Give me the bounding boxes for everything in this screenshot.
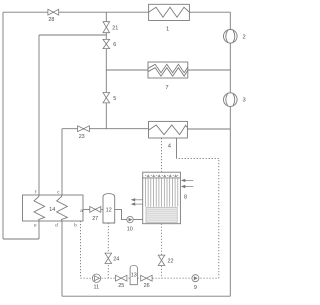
valve 21 [103,22,110,33]
compressor 3 [224,93,238,107]
wire dashed bottom header y=278.2 [81,277,219,279]
wire HX1 right to riser [189,11,230,13]
wire vessel12 right to pump10 to absorber8 [115,209,143,219]
wire valve column x=106.3 from top line to y=128.7 [105,12,107,129]
svg-text:9: 9 [194,285,197,291]
heat exchanger 4 [149,121,188,138]
svg-text:22: 22 [168,259,174,265]
wire dashed vessel12 bottom through valve24 to bottom header [107,223,109,278]
svg-text:25: 25 [118,283,124,289]
wire HX4 right to riser [187,128,230,130]
valve 6 [103,39,110,48]
wire top main line y=12 from left loop to HX1 [3,11,149,13]
svg-text:14: 14 [49,207,55,213]
valve 25 [116,275,127,281]
svg-text:1: 1 [166,27,169,33]
absorber 8 inlet arrows right [181,179,194,189]
wire dashed absorber8 bottom through valve22 to bottom header [161,224,163,279]
svg-text:6: 6 [113,42,116,48]
heat exchanger 7 [148,62,188,78]
heat exchanger 1 [149,4,190,20]
svg-text:3: 3 [243,98,246,104]
valve 5 [103,93,110,103]
absorber 8 liquid pool [146,208,177,223]
valve 24 [105,253,112,263]
wire e-column up to exchanger 14 [38,221,40,239]
exchanger 14 [23,195,84,221]
valve 23 [78,126,90,132]
svg-text:f: f [35,189,37,195]
svg-text:28: 28 [48,17,54,23]
valve 27 [90,207,101,213]
svg-text:27: 27 [92,216,98,222]
svg-text:21: 21 [112,26,118,32]
valve 22 [158,255,165,265]
wire branch line y=35 to valve column [39,34,106,36]
wire dashed HX4 bottom to absorber8 top [161,138,163,172]
wire a-port line exchanger14 to valve27 to vessel12 [83,208,103,210]
svg-text:10: 10 [127,226,133,232]
absorber 8 spray nozzles [145,174,178,177]
valve 28 [48,9,59,15]
svg-text:11: 11 [93,285,99,291]
wire HX4 bottom right stub to dashed corner [176,138,178,159]
svg-text:23: 23 [79,134,85,140]
svg-text:12: 12 [106,207,112,213]
svg-text:a: a [80,209,83,214]
wire bottom loop y=296 [62,295,230,297]
wire dashed b-column from exchanger14 [80,221,82,278]
svg-text:8: 8 [184,195,187,201]
svg-text:b: b [74,222,77,228]
wire dashed right riser x=218.8 [218,159,220,279]
wire valve23/HX4 feed line y=128.7 [62,128,149,130]
wire HX7 right to riser [188,69,231,71]
svg-text:7: 7 [165,85,168,91]
wire dashed top horizontal to HX4 stub [177,158,219,160]
svg-text:26: 26 [144,283,150,289]
valve 26 [141,275,152,281]
pump 11 [92,274,100,282]
svg-text:e: e [34,223,37,228]
wire d-column from exchanger 14 down to bottom loop [61,221,63,296]
absorber 8 outlet arrows left [131,198,143,206]
absorber 8 tube bundle [145,178,177,206]
svg-text:5: 5 [113,96,116,102]
vessel 13 [130,265,137,284]
vessel 12 [103,194,115,223]
wire bottom-left loop horizontal y=239 [3,238,39,240]
wire right main riser x=230.3 [229,12,231,296]
svg-text:4: 4 [168,143,172,149]
wire HX7 left feed y=70 [106,69,148,71]
pump 9 [192,275,199,282]
absorber 8 [143,172,181,224]
wire f-column from branch y=35 down to exchanger 14 [38,35,40,195]
svg-text:d: d [55,222,58,228]
svg-text:2: 2 [243,34,246,40]
pump 10 [127,216,133,222]
compressor 2 [224,30,238,44]
wire c-column from corner down to exchanger 14 [61,129,63,195]
svg-text:13: 13 [131,273,137,279]
wire left loop vertical x=3 [2,12,4,239]
svg-text:24: 24 [113,257,119,263]
